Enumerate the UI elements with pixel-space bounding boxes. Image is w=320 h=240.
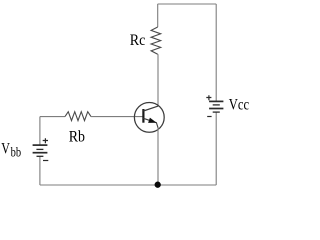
battery Vcc minus sign — [207, 116, 211, 118]
wire bottom horizontal — [40, 184, 216, 186]
battery Vcc plate long top — [209, 100, 223, 102]
wire collector lead bottom (Rc down to transistor collector) — [157, 54, 159, 106]
wire base left segment (corner to Rb) — [40, 116, 65, 118]
wire emitter vertical (transistor to bottom junction) — [157, 128, 159, 185]
transistor Q1 emitter arrow — [148, 118, 157, 123]
svg-text:bb: bb — [11, 145, 22, 160]
battery Vcc plate short upper — [213, 104, 220, 106]
wire left vertical lower (Vbb battery to bottom) — [39, 156, 41, 185]
wire base right segment (Rb to transistor base bar) — [91, 116, 143, 118]
resistor Rb zigzag — [65, 112, 91, 121]
battery Vbb plate short bottom — [37, 155, 44, 157]
battery Vbb plus sign — [43, 138, 48, 143]
wire top horizontal — [158, 3, 217, 5]
battery Vcc plate short bottom — [213, 111, 220, 113]
svg-text:Rc: Rc — [130, 32, 146, 49]
resistor Rc zigzag — [151, 27, 161, 54]
svg-text:Rb: Rb — [69, 129, 85, 146]
wire left vertical upper (base wire corner to Vbb battery) — [39, 117, 41, 145]
junction node dot — [155, 182, 161, 188]
svg-text:Vcc: Vcc — [229, 97, 249, 114]
battery Vcc plus sign — [206, 95, 211, 100]
battery Vbb plate long top — [33, 144, 48, 146]
transistor Q1 base bar — [142, 109, 144, 123]
wire right vertical lower (Vcc battery to bottom) — [215, 112, 217, 185]
battery Vcc plate long lower — [209, 108, 223, 110]
transistor Q1 emitter diagonal — [143, 118, 158, 128]
battery Vbb minus sign — [43, 160, 48, 162]
wire right vertical upper (top to Vcc battery) — [215, 4, 217, 101]
transistor Q1 circle — [134, 103, 164, 133]
battery Vbb plate short upper — [36, 148, 43, 150]
svg-text:V: V — [1, 140, 10, 157]
battery Vbb plate long lower — [33, 152, 48, 154]
wire collector lead top (top corner down to Rc) — [157, 4, 159, 27]
transistor Q1 collector diagonal — [143, 106, 158, 111]
